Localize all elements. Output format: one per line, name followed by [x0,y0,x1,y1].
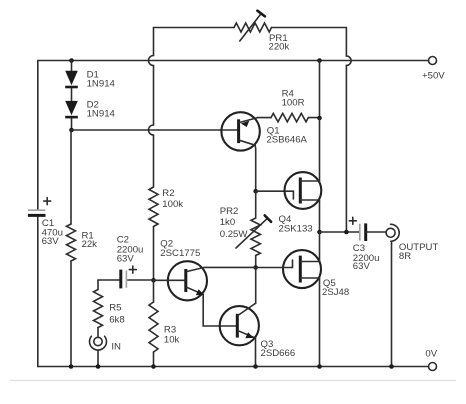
wire top loop (PR1 feedback) [154,27,347,29]
node rail Q3 emitter [253,364,258,369]
svg-text:22k: 22k [82,239,98,250]
node R4/+50V [317,58,322,63]
svg-text:0.25W: 0.25W [220,229,249,240]
transistor Q1 2SB646A (PNP) [221,112,259,150]
wire R1 branch [70,130,72,367]
wire Q1 emitter to R4 [258,117,272,119]
node C2 / Q2 base [151,278,156,283]
svg-text:R5: R5 [109,303,121,314]
mosfet Q5 2SJ48 [283,250,321,288]
svg-text:63V: 63V [117,253,135,264]
svg-text:2SB646A: 2SB646A [266,135,307,146]
input socket IN [94,337,102,345]
+50V supply rail [38,60,429,62]
node diode bottom [69,128,74,133]
potentiometer PR2 1k0 [255,191,257,218]
svg-text:100R: 100R [282,98,305,109]
svg-text:63V: 63V [42,236,60,247]
node rail R1 [69,364,74,369]
svg-text:IN: IN [111,342,121,353]
node rail IN [96,364,101,369]
wire Q4 drain up / source down [319,118,321,232]
diode D2 1N914 [65,101,78,115]
resistor R4 100R [271,113,308,121]
svg-text:1N914: 1N914 [87,79,116,90]
svg-text:0V: 0V [425,348,437,359]
wire base line to Q1 [72,129,149,131]
resistor R3 10k [153,280,155,302]
svg-text:8R: 8R [399,251,411,262]
0V rail [38,366,429,368]
svg-text:2SJ48: 2SJ48 [322,287,349,298]
svg-text:100k: 100k [162,199,183,210]
svg-text:R2: R2 [162,188,174,199]
transistor Q2 2SC1775 (NPN) [168,261,207,300]
capacitor C1 [28,209,45,211]
svg-text:2SD666: 2SD666 [261,348,296,359]
svg-text:2SK133: 2SK133 [279,224,313,235]
node Q4 gate [253,189,258,194]
svg-text:6k8: 6k8 [109,315,124,326]
bottom margin line [10,380,456,382]
wire output line [320,231,360,233]
resistor R1 22k [67,224,76,261]
svg-text:+50V: +50V [422,70,445,81]
svg-text:1N914: 1N914 [87,109,116,120]
node rail output socket [389,364,394,369]
+50V terminal [429,57,437,65]
mosfet Q4 2SK133 [285,172,322,209]
output socket [386,228,395,237]
svg-text:PR2: PR2 [220,206,239,217]
wire VL5 PR1 right leg, hops rail, down to C3 [345,28,347,57]
capacitor C3 2200u [359,224,361,241]
node Q5 gate / Q2 collector [253,265,258,270]
wire diode chain [71,61,73,131]
wire +50V drop to R4/Q4 [319,61,321,119]
potentiometer PR1 [234,23,272,32]
svg-text:220k: 220k [269,42,290,53]
diode D1 1N914 [65,71,78,85]
svg-text:2SC1775: 2SC1775 [160,248,200,259]
wire gate line to Q4 [256,191,294,199]
node output at Q4/Q5 [317,230,322,235]
resistor R5 6k8 [97,280,99,290]
transistor Q3 2SD666 (NPN) [220,306,259,345]
node rail R3 [151,364,156,369]
wire Q5 drain up / source down [319,232,321,367]
svg-text:1k0: 1k0 [220,217,235,228]
node rail Q5 source [317,364,322,369]
0V terminal [429,363,437,371]
node diode top on rail [69,58,74,63]
svg-text:10k: 10k [164,335,180,346]
capacitor C2 2200u [98,279,119,281]
wire left vertical with C1 [37,61,39,210]
svg-text:63V: 63V [353,261,371,272]
wire VL3 from top loop down, hops rail and base line [153,28,155,56]
resistor R2 100k [149,187,158,227]
node C3 [344,230,349,235]
